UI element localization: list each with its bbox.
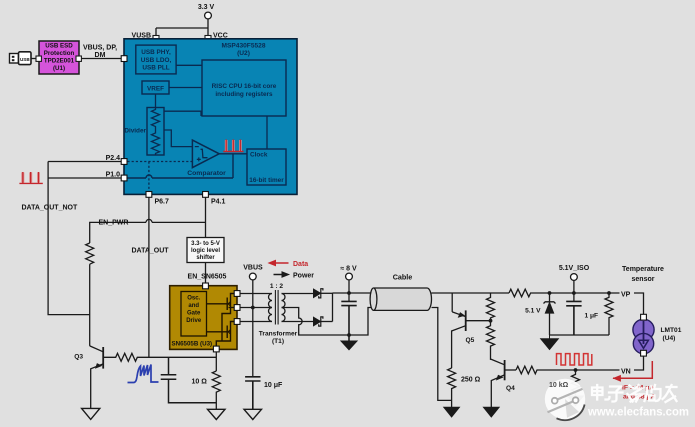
wire 5V iso rail — [550, 292, 621, 294]
svg-text:SN6505B (U3): SN6505B (U3) — [172, 341, 213, 348]
wire 3.3V to VCC and VUSB — [156, 19, 208, 37]
svg-text:VBUS: VBUS — [243, 265, 263, 272]
arrow Power black — [274, 272, 289, 277]
svg-text:(U2): (U2) — [237, 50, 250, 57]
svg-text:Clock: Clock — [250, 152, 268, 159]
svg-text:MSP430F5528: MSP430F5528 — [222, 43, 266, 50]
svg-text:250 Ω: 250 Ω — [461, 376, 481, 383]
wire P4.1 to level shifter — [205, 197, 207, 237]
svg-text:EN_PWR: EN_PWR — [99, 220, 129, 227]
svg-text:10 kΩ: 10 kΩ — [549, 382, 569, 389]
svg-text:DM: DM — [95, 52, 106, 59]
block VREF — [142, 81, 169, 94]
wire iso ground bus — [550, 334, 610, 336]
resistor 10 ohm — [212, 371, 220, 409]
ground iso — [541, 335, 559, 350]
wire rectifier output — [333, 293, 372, 322]
capacitor 1uF — [566, 301, 581, 335]
svg-text:EN_SN6505: EN_SN6505 — [188, 274, 227, 281]
arrow red current direction — [613, 361, 652, 378]
block RISC CPU core — [202, 60, 286, 116]
ground 10 ohm — [208, 409, 226, 419]
wire U3 VCC to center tap, net VBUS — [240, 307, 272, 309]
waveform blue sawtooth — [128, 365, 159, 383]
junction Q5 base — [489, 319, 493, 323]
svg-text:Osc.: Osc. — [187, 296, 200, 302]
block divider — [124, 108, 164, 156]
wire U3 D1 to transformer — [240, 293, 272, 295]
svg-text:Cable: Cable — [393, 273, 413, 282]
block USB PHY LDO PLL — [136, 45, 176, 74]
svg-text:LMT01: LMT01 — [661, 327, 682, 334]
capacitor Q3 base filter — [161, 357, 217, 402]
capacitor bulk 8V — [341, 301, 356, 341]
wire shifter to SN6505 EN, net EN_SN6505 — [205, 263, 207, 284]
svg-text:USB PLL: USB PLL — [142, 64, 169, 71]
net label VP — [620, 289, 635, 298]
wire VP to LMT01 — [634, 293, 644, 314]
svg-text:Gate: Gate — [187, 311, 201, 317]
svg-text:Divider: Divider — [124, 128, 146, 135]
diode D2 schottky — [313, 317, 332, 326]
op-amp comparator — [187, 140, 226, 177]
svg-text:VP: VP — [621, 291, 631, 298]
svg-text:Power: Power — [293, 272, 314, 279]
wire CPU to clock — [266, 116, 268, 149]
wire USB icon to U1 — [31, 58, 36, 60]
ground Q3 emitter — [82, 408, 100, 419]
node VBUS terminal — [243, 265, 263, 377]
wire divider tap to comparator minus — [164, 130, 192, 147]
pin U1 right — [76, 56, 81, 61]
svg-text:(U4): (U4) — [663, 335, 676, 342]
watermark logo circle — [545, 379, 585, 420]
resistor Q4 base — [516, 366, 620, 374]
svg-text:10 Ω: 10 Ω — [192, 379, 208, 386]
waveform red square wave — [557, 354, 592, 365]
transistor Q5 — [452, 293, 491, 368]
transistor Q3 — [90, 346, 104, 409]
pin U1 left — [36, 56, 41, 61]
cable — [370, 273, 431, 311]
svg-text:5.1V_ISO: 5.1V_ISO — [559, 265, 590, 272]
svg-text:VBUS, DP,: VBUS, DP, — [83, 45, 117, 52]
wire secondary bottom to diode — [282, 321, 314, 323]
pin P4.1 — [203, 192, 209, 198]
net label VN — [620, 366, 635, 375]
wire U3 D2 to transformer — [240, 321, 272, 323]
wire cable right top — [432, 292, 510, 294]
MCU MSP430F5528 U2 — [124, 39, 297, 195]
junction return at cap — [347, 333, 351, 337]
svg-text:USB: USB — [20, 57, 30, 62]
pin U3 EN top — [203, 283, 209, 289]
wire VREF to CPU — [169, 87, 202, 89]
USB connector icon — [10, 52, 32, 65]
resistor 250 ohm — [448, 368, 456, 407]
ground 8V rail — [341, 341, 357, 350]
resistor 8V line series — [509, 289, 550, 297]
pin P2.4 — [121, 159, 127, 165]
ground Q4 — [484, 407, 500, 417]
pin VCC — [205, 36, 211, 42]
svg-text:5.1 V: 5.1 V — [525, 308, 541, 315]
arrow Data red — [269, 261, 288, 266]
wire hop P1.0 over dashed — [146, 175, 152, 178]
svg-text:3.3 V: 3.3 V — [198, 4, 215, 11]
svg-text:Q3: Q3 — [74, 354, 83, 361]
wire VREF to divider — [155, 94, 157, 108]
block clock and 16-bit timer — [247, 149, 286, 185]
pin U3 D2 — [234, 319, 240, 325]
svg-text:RISC CPU 16-bit core: RISC CPU 16-bit core — [212, 83, 277, 90]
svg-text:1 : 2: 1 : 2 — [270, 283, 284, 290]
wire cable right return — [432, 308, 452, 401]
block 3.3 to 5V logic level shifter — [187, 238, 224, 263]
resistor 10 kohm — [572, 370, 580, 396]
svg-text:Drive: Drive — [186, 318, 202, 324]
USB ESD protection U1 — [39, 41, 79, 74]
svg-text:www.elecfans.com: www.elecfans.com — [587, 405, 689, 419]
svg-text:and: and — [188, 303, 199, 309]
wire P6.7 column DATA_OUT — [148, 197, 150, 357]
svg-text:DATA_OUT_NOT: DATA_OUT_NOT — [22, 205, 78, 212]
transformer T1 — [269, 290, 286, 325]
wire comparator output to clock and P1.0 — [127, 154, 247, 178]
capacitor 10uF — [245, 377, 260, 410]
svg-text:Temperature: Temperature — [622, 266, 664, 273]
svg-text:Comparator: Comparator — [187, 170, 226, 177]
wire secondary center tap return with hop — [282, 308, 372, 336]
svg-text:USB PHY,: USB PHY, — [141, 49, 171, 56]
pin P1.0 — [121, 175, 127, 181]
wire U3 GND to 10 ohm — [215, 352, 217, 371]
waveform red pulses DATA_OUT_NOT — [19, 172, 42, 183]
svg-text:DATA_OUT: DATA_OUT — [132, 248, 170, 255]
pin U3 VCC mid — [234, 305, 240, 311]
temperature sensor LMT01 U4 — [633, 314, 654, 356]
svg-text:USB LDO,: USB LDO, — [141, 57, 172, 64]
wire EN_PWR from P4.1 column with hop over P6.7 column — [90, 222, 206, 243]
svg-text:including registers: including registers — [215, 91, 273, 98]
wire U1 to U2, net VBUS DP DM — [81, 58, 121, 60]
wire USBPHY to CPU — [176, 64, 202, 66]
wire secondary top to diode — [282, 293, 314, 295]
pin U3 GND bottom — [213, 346, 219, 352]
svg-text:logic level: logic level — [191, 248, 220, 254]
svg-text:Q5: Q5 — [466, 337, 475, 344]
svg-text:USB ESD: USB ESD — [45, 43, 73, 50]
node 3.3 V supply terminal — [198, 4, 215, 19]
wire U3 VCC pin stub — [229, 307, 235, 309]
transistor Q4 — [491, 359, 517, 407]
diode D1 schottky — [313, 289, 332, 298]
svg-text:Protection: Protection — [44, 50, 75, 57]
ground 10uF — [244, 409, 262, 419]
svg-text:P6.7: P6.7 — [155, 199, 170, 206]
node approx 8V terminal — [340, 266, 357, 302]
wire divider top to CPU bottom — [164, 111, 201, 116]
transistor FET2 in U3 — [207, 322, 235, 347]
pin P6.7 — [146, 192, 152, 198]
svg-text:16-bit timer: 16-bit timer — [249, 177, 284, 184]
svg-text:Transformer: Transformer — [259, 331, 298, 338]
svg-text:sensor: sensor — [632, 276, 655, 283]
resistor divider lower — [487, 321, 495, 360]
diode zener 5.1V — [525, 293, 555, 335]
svg-text:VREF: VREF — [147, 86, 164, 93]
svg-text:VN: VN — [621, 368, 631, 375]
pin U3 D1 — [234, 291, 240, 297]
transformer driver SN6505B U3 — [170, 286, 237, 350]
svg-text:10 μF: 10 μF — [264, 382, 283, 389]
svg-text:Data: Data — [293, 261, 308, 268]
resistor sensor load — [605, 293, 613, 335]
wire dashed down to P6.7 — [148, 162, 150, 192]
svg-text:≈ 8 V: ≈ 8 V — [340, 266, 357, 273]
svg-text:P4.1: P4.1 — [211, 199, 226, 206]
svg-text:(T1): (T1) — [272, 338, 284, 345]
resistor EN_PWR pull — [86, 243, 94, 264]
wire LMT01 to VN — [634, 356, 644, 370]
resistor Q3 base — [103, 353, 216, 361]
wire P2.4 and P1.0 to DATA_OUT_NOT column — [48, 162, 121, 315]
transistor FET1 in U3 — [207, 294, 235, 342]
svg-text:(U1): (U1) — [53, 65, 65, 72]
svg-text:TPD2E001: TPD2E001 — [44, 58, 75, 65]
pin U2 DP DM — [121, 56, 127, 62]
wire resistor to Q3 collector — [89, 264, 91, 346]
node 5.1V_ISO terminal — [559, 265, 590, 301]
svg-text:shifter: shifter — [196, 255, 215, 261]
ground 10k — [568, 396, 584, 406]
resistor divider upper — [487, 293, 495, 321]
waveform red pulses at comparator output — [223, 140, 243, 152]
wire dashed P2.4 to comparator plus — [127, 161, 192, 163]
ground Q5 — [444, 407, 460, 417]
svg-text:Q4: Q4 — [506, 385, 515, 392]
svg-text:3.3- to 5-V: 3.3- to 5-V — [191, 241, 220, 247]
svg-text:1 μF: 1 μF — [585, 313, 599, 320]
pin VUSB — [153, 36, 159, 42]
watermark chinese text — [592, 385, 677, 402]
